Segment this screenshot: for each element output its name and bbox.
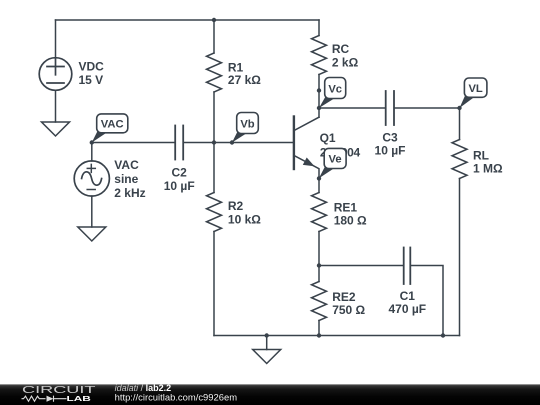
svg-text:10 µF: 10 µF: [164, 179, 195, 193]
resistor RE1: [312, 193, 327, 232]
wire RE2 top lead: [318, 266, 320, 282]
svg-text:Vc: Vc: [328, 83, 342, 95]
junction dot collector node: [317, 106, 321, 110]
svg-text:idalati / lab2.2: idalati / lab2.2: [115, 383, 172, 393]
svg-text:RC: RC: [332, 42, 350, 56]
resistor RE2: [312, 282, 327, 321]
node flag VL wedge: [460, 95, 475, 108]
svg-text:C3: C3: [382, 130, 398, 144]
wire base rail right (C2 to Q1 base): [184, 142, 294, 144]
node Vb anchor dot: [230, 140, 234, 144]
wire top rail: [56, 19, 320, 21]
svg-text:Ve: Ve: [329, 154, 342, 166]
capacitor C3 plates: [386, 91, 394, 125]
wire bottom rail: [214, 335, 460, 337]
junction dot base rail / R1 R2: [212, 140, 216, 144]
node flag VAC wedge: [92, 131, 107, 143]
capacitor C2 plates: [175, 126, 183, 160]
svg-text:http://circuitlab.com/c9926em: http://circuitlab.com/c9926em: [115, 393, 238, 403]
junction dot RE1/RE2/C1: [317, 263, 321, 267]
Q1 emitter arrow: [303, 158, 315, 167]
svg-text:VDC: VDC: [79, 60, 105, 74]
wire C3 to VL node: [395, 107, 460, 109]
node flag VL box: [464, 78, 487, 97]
wire R2 top lead: [213, 143, 215, 193]
wire RC bottom lead to collector: [318, 75, 320, 118]
svg-text:Q1: Q1: [320, 131, 336, 145]
svg-text:2 kHz: 2 kHz: [114, 186, 145, 200]
node flag Vc box: [325, 78, 346, 99]
svg-text:750 Ω: 750 Ω: [332, 303, 365, 317]
node flag Vb wedge: [232, 132, 247, 143]
wire RL bottom lead: [459, 179, 461, 336]
wire R1 bottom lead: [213, 92, 215, 143]
capacitor C1 plates: [404, 248, 411, 285]
svg-text:10 µF: 10 µF: [375, 143, 406, 157]
wire RE1 bottom lead: [318, 232, 320, 266]
footer logo resistor zigzag: [22, 396, 46, 401]
Q1 emitter diagonal: [294, 155, 319, 178]
junction dot C1 bottom: [441, 333, 445, 337]
node Ve anchor dot (emitter): [317, 176, 321, 180]
svg-text:180 Ω: 180 Ω: [334, 214, 367, 228]
voltage source V2 VAC circle: [74, 161, 109, 196]
svg-text:15 V: 15 V: [79, 73, 104, 87]
node flag Ve box: [324, 148, 346, 168]
ground G2 (below VAC): [78, 227, 106, 241]
resistor RC: [312, 36, 327, 75]
svg-text:470 µF: 470 µF: [388, 302, 426, 316]
transistor Q1 base bar: [293, 117, 295, 170]
wire R1 top lead: [213, 20, 215, 53]
wire VDC top lead: [55, 20, 57, 58]
svg-text:2 kΩ: 2 kΩ: [332, 55, 359, 69]
node flag VAC box: [97, 114, 128, 133]
wire RE2 bottom lead: [318, 321, 320, 336]
wire C1 right lead: [411, 266, 443, 336]
junction dot ground tap: [265, 333, 269, 337]
svg-text:10 kΩ: 10 kΩ: [228, 213, 261, 227]
V1 plus sign: [47, 58, 64, 75]
wire R2 bottom lead: [213, 232, 215, 336]
node flag Ve wedge: [319, 167, 335, 179]
svg-text:RE2: RE2: [332, 290, 356, 304]
svg-text:VAC: VAC: [114, 158, 139, 172]
wire collector node to C3: [319, 107, 385, 109]
svg-text:R2: R2: [228, 199, 244, 213]
wire emitter to RE1: [318, 178, 320, 192]
wire VAC source top lead: [91, 143, 93, 162]
node flag Vc wedge: [319, 97, 335, 109]
wire VAC source bottom lead: [91, 196, 93, 227]
wire RC top lead: [318, 20, 320, 36]
Q1 collector diagonal: [294, 117, 319, 130]
V1 minus sign: [47, 82, 64, 84]
svg-text:1 MΩ: 1 MΩ: [473, 161, 503, 175]
svg-text:27 kΩ: 27 kΩ: [228, 73, 261, 87]
node VL anchor dot: [457, 106, 461, 110]
svg-text:VAC: VAC: [101, 119, 124, 131]
resistor R2: [207, 193, 222, 232]
node flag Vb box: [237, 113, 259, 134]
voltage source V1 VDC circle: [39, 58, 72, 91]
svg-text:RE1: RE1: [334, 200, 358, 214]
V2 minus sign: [87, 189, 95, 191]
node VAC anchor dot: [90, 140, 94, 144]
svg-text:VL: VL: [468, 83, 482, 95]
V2 sine wave: [82, 172, 102, 185]
wire RL top lead: [459, 108, 461, 140]
wire VDC bottom lead: [55, 90, 57, 122]
V2 plus sign: [87, 164, 95, 172]
ground G1 (below VDC): [42, 122, 70, 136]
resistor R1: [207, 53, 222, 92]
wire ground tap bottom: [266, 336, 268, 350]
wire emitter node to C1: [319, 265, 403, 267]
resistor RL: [452, 140, 467, 179]
svg-text:C2: C2: [172, 166, 188, 180]
footer bar: [0, 384, 540, 405]
svg-text:sine: sine: [114, 172, 138, 186]
node Vc anchor dot: [317, 88, 321, 92]
svg-text:LAB: LAB: [67, 394, 92, 403]
svg-text:Vb: Vb: [240, 118, 254, 130]
ground G3 (bottom rail): [253, 350, 281, 364]
junction dot top rail / R1: [212, 18, 216, 22]
svg-text:C1: C1: [400, 289, 416, 303]
footer logo diode: [47, 396, 54, 402]
junction dot RE2 bottom: [317, 333, 321, 337]
wire base rail left (VAC node to C2): [92, 142, 174, 144]
